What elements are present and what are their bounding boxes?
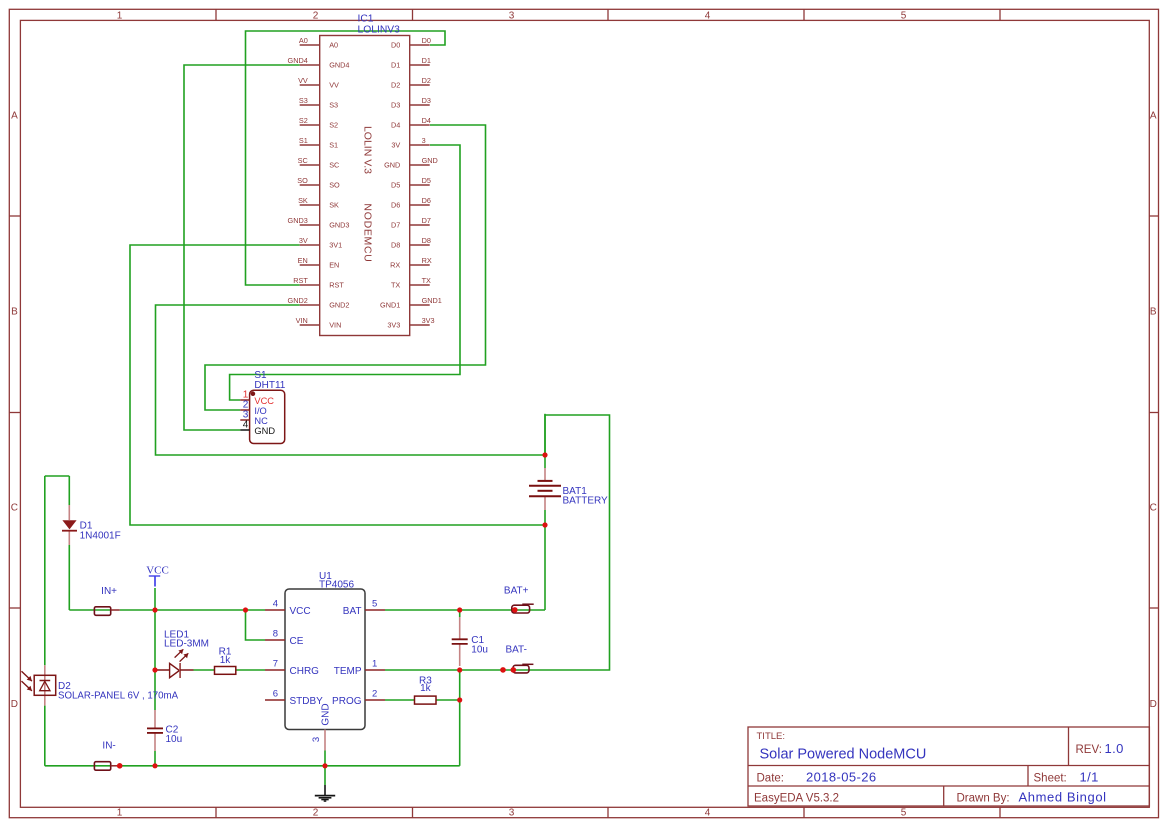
svg-text:3: 3 [509, 807, 515, 818]
svg-text:REV:: REV: [1076, 744, 1102, 756]
svg-text:GND: GND [254, 426, 275, 436]
svg-text:DHT11: DHT11 [254, 380, 285, 391]
svg-text:Ahmed Bingol: Ahmed Bingol [1019, 789, 1107, 804]
svg-text:10u: 10u [471, 645, 488, 656]
svg-text:5: 5 [372, 598, 377, 609]
svg-text:GND1: GND1 [380, 301, 400, 310]
svg-text:VCC: VCC [254, 396, 274, 406]
svg-text:D: D [1150, 699, 1157, 710]
svg-text:SO: SO [329, 181, 340, 190]
svg-text:SO: SO [297, 176, 308, 185]
svg-text:A: A [1150, 111, 1157, 122]
svg-text:LOLIN V.3: LOLIN V.3 [362, 126, 374, 174]
svg-text:3: 3 [422, 136, 426, 145]
svg-text:GND: GND [422, 156, 438, 165]
svg-text:10u: 10u [166, 734, 183, 745]
svg-text:D8: D8 [422, 236, 431, 245]
svg-text:D2: D2 [391, 81, 400, 90]
svg-text:1: 1 [117, 10, 123, 21]
svg-text:A: A [11, 111, 18, 122]
svg-text:S1: S1 [329, 141, 338, 150]
svg-text:D7: D7 [391, 221, 400, 230]
svg-text:RX: RX [422, 256, 432, 265]
svg-text:4: 4 [243, 420, 249, 431]
svg-text:Drawn By:: Drawn By: [957, 792, 1010, 804]
svg-text:LOLINV3: LOLINV3 [358, 24, 401, 35]
svg-text:GND: GND [321, 703, 332, 725]
svg-text:S2: S2 [299, 116, 308, 125]
svg-text:VIN: VIN [329, 321, 341, 330]
svg-text:B: B [11, 307, 18, 318]
svg-text:D5: D5 [422, 176, 431, 185]
svg-text:S2: S2 [329, 121, 338, 130]
svg-text:D0: D0 [422, 36, 431, 45]
svg-text:GND2: GND2 [329, 301, 349, 310]
svg-text:1: 1 [117, 807, 123, 818]
svg-text:D1: D1 [391, 61, 400, 70]
svg-text:5: 5 [901, 10, 907, 21]
svg-text:NC: NC [254, 416, 268, 426]
svg-text:D7: D7 [422, 216, 431, 225]
svg-text:D6: D6 [422, 196, 431, 205]
svg-text:SC: SC [329, 161, 339, 170]
svg-text:1k: 1k [220, 655, 232, 666]
svg-text:1k: 1k [420, 683, 432, 694]
svg-text:3V3: 3V3 [422, 316, 435, 325]
svg-text:TX: TX [422, 276, 431, 285]
svg-text:SK: SK [329, 201, 339, 210]
svg-text:GND1: GND1 [422, 296, 442, 305]
svg-text:D8: D8 [391, 241, 400, 250]
svg-text:SOLAR-PANEL 6V , 170mA: SOLAR-PANEL 6V , 170mA [58, 690, 179, 701]
svg-text:D4: D4 [391, 121, 400, 130]
svg-text:GND3: GND3 [329, 221, 349, 230]
svg-text:A0: A0 [299, 36, 308, 45]
svg-text:GND2: GND2 [288, 296, 308, 305]
svg-text:4: 4 [273, 598, 278, 609]
svg-text:BAT-: BAT- [505, 644, 526, 655]
svg-text:SC: SC [298, 156, 308, 165]
svg-text:GND4: GND4 [329, 61, 349, 70]
svg-text:IC1: IC1 [358, 14, 374, 25]
svg-text:3V: 3V [299, 236, 308, 245]
svg-text:Sheet:: Sheet: [1034, 772, 1067, 784]
svg-text:7: 7 [273, 658, 278, 669]
svg-text:STDBY: STDBY [290, 696, 324, 707]
svg-text:D3: D3 [391, 101, 400, 110]
svg-text:BAT: BAT [343, 606, 362, 617]
svg-text:S3: S3 [329, 101, 338, 110]
svg-text:CHRG: CHRG [290, 666, 320, 677]
svg-text:TX: TX [391, 281, 400, 290]
svg-text:D4: D4 [422, 116, 431, 125]
svg-text:BATTERY: BATTERY [563, 495, 609, 506]
svg-text:D5: D5 [391, 181, 400, 190]
svg-text:RX: RX [390, 261, 400, 270]
svg-text:TITLE:: TITLE: [757, 731, 786, 742]
svg-text:1N4001F: 1N4001F [80, 530, 121, 541]
svg-text:6: 6 [273, 688, 278, 699]
svg-text:S1: S1 [299, 136, 308, 145]
svg-text:SK: SK [298, 196, 308, 205]
svg-text:C: C [11, 503, 18, 514]
svg-text:S3: S3 [299, 96, 308, 105]
svg-text:BAT+: BAT+ [504, 585, 529, 596]
svg-text:1/1: 1/1 [1080, 769, 1099, 784]
svg-text:B: B [1150, 307, 1157, 318]
svg-text:D: D [11, 699, 18, 710]
svg-text:IN+: IN+ [101, 586, 117, 597]
svg-text:RST: RST [293, 276, 308, 285]
svg-text:1.0: 1.0 [1105, 741, 1124, 756]
svg-text:GND4: GND4 [288, 56, 308, 65]
svg-text:1: 1 [372, 658, 377, 669]
svg-text:TP4056: TP4056 [319, 579, 354, 590]
svg-text:D6: D6 [391, 201, 400, 210]
svg-text:EN: EN [298, 256, 308, 265]
svg-text:D0: D0 [391, 41, 400, 50]
svg-text:VCC: VCC [146, 564, 169, 576]
svg-text:2: 2 [313, 10, 319, 21]
svg-text:VV: VV [298, 76, 308, 85]
svg-text:3V: 3V [391, 141, 400, 150]
svg-text:8: 8 [273, 628, 278, 639]
svg-text:Date:: Date: [757, 772, 785, 784]
svg-text:D2: D2 [422, 76, 431, 85]
svg-text:C: C [1150, 503, 1157, 514]
svg-text:D1: D1 [422, 56, 431, 65]
svg-text:2: 2 [313, 807, 319, 818]
svg-text:NODEMCU: NODEMCU [362, 203, 374, 262]
svg-text:A0: A0 [329, 41, 338, 50]
svg-text:EasyEDA V5.3.2: EasyEDA V5.3.2 [754, 792, 839, 804]
svg-text:3: 3 [509, 10, 515, 21]
svg-text:IN-: IN- [102, 741, 115, 752]
svg-text:LED-3MM: LED-3MM [164, 639, 209, 650]
svg-text:VV: VV [329, 81, 339, 90]
svg-text:I/O: I/O [254, 406, 266, 416]
svg-text:GND: GND [384, 161, 400, 170]
svg-text:3V1: 3V1 [329, 241, 342, 250]
svg-text:3: 3 [311, 737, 322, 742]
svg-text:2: 2 [372, 688, 377, 699]
svg-text:VIN: VIN [296, 316, 308, 325]
svg-text:Solar Powered NodeMCU: Solar Powered NodeMCU [760, 746, 927, 762]
svg-text:GND3: GND3 [288, 216, 308, 225]
svg-text:3V3: 3V3 [387, 321, 400, 330]
svg-text:VCC: VCC [290, 606, 311, 617]
svg-text:2018-05-26: 2018-05-26 [806, 769, 877, 784]
svg-text:RST: RST [329, 281, 344, 290]
svg-text:5: 5 [901, 807, 907, 818]
svg-text:PROG: PROG [332, 696, 362, 707]
svg-text:TEMP: TEMP [334, 666, 362, 677]
svg-text:4: 4 [705, 10, 711, 21]
svg-text:CE: CE [290, 636, 304, 647]
svg-text:EN: EN [329, 261, 339, 270]
svg-text:D3: D3 [422, 96, 431, 105]
svg-text:4: 4 [705, 807, 711, 818]
